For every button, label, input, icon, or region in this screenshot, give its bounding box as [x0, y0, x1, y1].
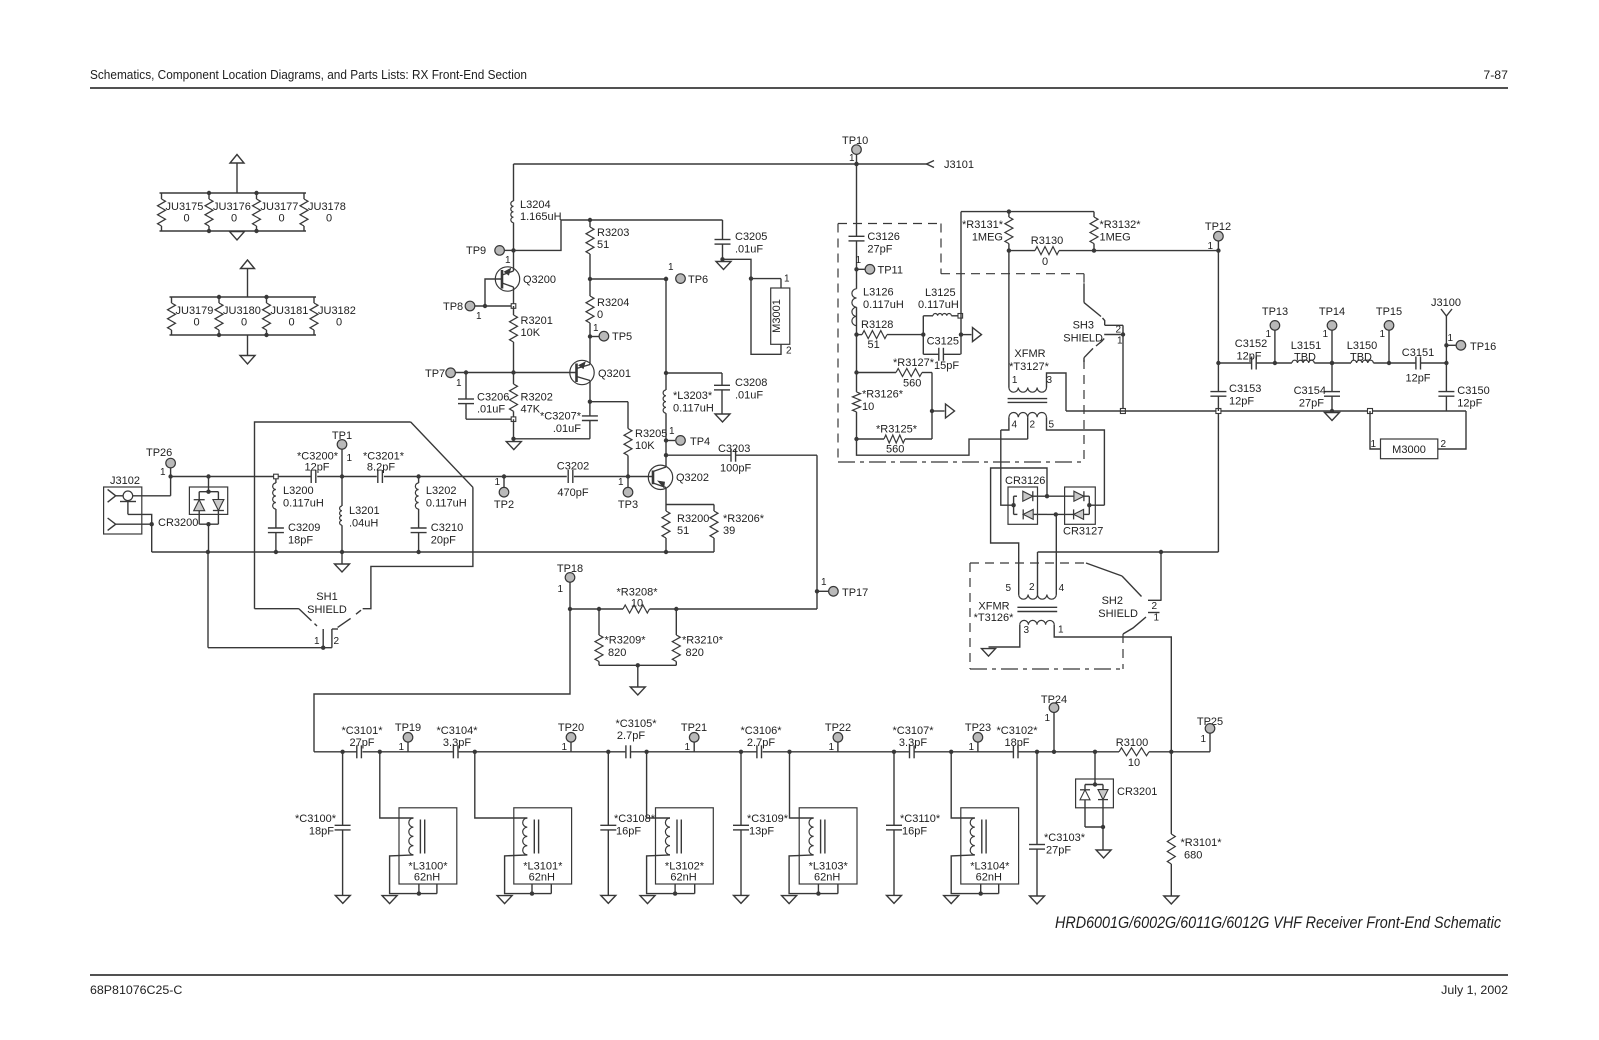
capacitor C3203: [664, 443, 817, 475]
svg-text:820: 820: [608, 647, 626, 659]
svg-text:Q3202: Q3202: [676, 472, 709, 484]
transistor Q3200: [495, 250, 556, 306]
svg-text:*C3100*: *C3100*: [295, 813, 337, 825]
svg-text:TP16: TP16: [1470, 341, 1496, 353]
svg-text:27pF: 27pF: [867, 243, 892, 255]
wire R3200-R3206 bottom: [664, 550, 714, 554]
svg-text:TP5: TP5: [612, 331, 632, 343]
signal arrow mid: [932, 404, 955, 418]
svg-text:CR3201: CR3201: [1117, 786, 1157, 798]
capacitor C3102: [997, 725, 1039, 758]
svg-text:0.117uH: 0.117uH: [918, 299, 959, 311]
svg-text:62nH: 62nH: [814, 872, 840, 884]
inductor L3202: [415, 474, 466, 528]
svg-text:0: 0: [279, 213, 285, 225]
resistor R3200: [662, 505, 709, 553]
svg-text:R3200: R3200: [677, 513, 709, 525]
svg-text:TP6: TP6: [688, 274, 708, 286]
svg-text:Q3201: Q3201: [598, 368, 631, 380]
power arrow (up) for jumper group 2: [241, 260, 255, 297]
svg-text:*C3110*: *C3110*: [900, 813, 941, 825]
svg-text:*C3102*: *C3102*: [997, 725, 1039, 737]
capacitor C3152: [1235, 338, 1267, 370]
svg-text:SHIELD: SHIELD: [1063, 333, 1103, 345]
resistor R3205: [624, 402, 667, 477]
wire T3126 pin1 riser: [1054, 625, 1171, 752]
svg-text:0: 0: [194, 317, 200, 329]
capacitor C3200: [297, 451, 339, 484]
svg-text:1: 1: [494, 477, 500, 488]
svg-text:CR3200: CR3200: [158, 517, 198, 529]
svg-text:18pF: 18pF: [309, 825, 334, 837]
wire CR bottom node to T3126 pin4: [1055, 514, 1057, 594]
transistor Q3202: [648, 441, 709, 505]
svg-text:XFMR: XFMR: [978, 601, 1009, 613]
svg-text:1: 1: [618, 477, 624, 488]
wire R3131 node to T3127 pin1: [1008, 251, 1010, 388]
svg-text:1: 1: [1207, 241, 1213, 252]
test point TP22: [825, 722, 851, 753]
svg-text:.01uF: .01uF: [735, 243, 763, 255]
svg-text:1: 1: [821, 577, 827, 588]
svg-text:1: 1: [593, 323, 599, 334]
inductor L3103: [782, 750, 857, 904]
svg-text:C3152: C3152: [1235, 338, 1267, 350]
resistor JU3175: [158, 193, 204, 231]
inductor L3100: [378, 750, 457, 904]
svg-text:TP14: TP14: [1319, 306, 1345, 318]
svg-text:0.117uH: 0.117uH: [863, 299, 904, 311]
svg-text:*T3126*: *T3126*: [974, 612, 1014, 624]
test point TP24: [1041, 694, 1067, 754]
svg-text:680: 680: [1184, 849, 1202, 861]
svg-text:16pF: 16pF: [616, 825, 641, 837]
svg-text:C3126: C3126: [867, 231, 899, 243]
shield SH1 pins: [314, 629, 340, 648]
page header text: [90, 68, 1508, 82]
wire ground net y552: [1038, 414, 1219, 555]
wire SH3 pin to square: [1120, 325, 1125, 413]
svg-text:JU3177: JU3177: [261, 201, 299, 213]
svg-text:12pF: 12pF: [304, 462, 329, 474]
svg-text:1: 1: [668, 262, 674, 273]
test point TP15: [1376, 306, 1402, 365]
svg-text:TBD: TBD: [1294, 352, 1316, 364]
svg-text:L3126: L3126: [863, 287, 894, 299]
svg-text:560: 560: [886, 444, 904, 456]
svg-text:TP11: TP11: [878, 265, 903, 277]
ground below C3208: [715, 414, 730, 422]
resistor R3100: [1116, 737, 1149, 769]
svg-text:C3202: C3202: [557, 461, 589, 473]
jumper group 1 junctions: [207, 191, 259, 233]
test point TP13: [1262, 306, 1288, 365]
resistor JU3180: [215, 297, 261, 335]
svg-text:*C3104*: *C3104*: [437, 725, 479, 737]
svg-text:1: 1: [1322, 329, 1328, 340]
ground below R3202: [506, 442, 521, 450]
svg-text:C3206: C3206: [477, 391, 509, 403]
wire T3127 secondary leads: [1001, 417, 1105, 505]
test point TP10: [842, 135, 868, 166]
svg-text:C3210: C3210: [431, 522, 463, 534]
svg-text:8.2pF: 8.2pF: [367, 462, 395, 474]
svg-text:M3001: M3001: [771, 299, 783, 333]
svg-text:J3100: J3100: [1431, 297, 1461, 309]
inductor L3203: [663, 277, 714, 441]
svg-text:2.7pF: 2.7pF: [617, 730, 645, 742]
svg-text:3: 3: [1024, 625, 1030, 636]
svg-text:12pF: 12pF: [1457, 397, 1482, 409]
svg-text:68P81076C25-C: 68P81076C25-C: [90, 983, 182, 997]
svg-text:R3202: R3202: [521, 391, 553, 403]
test point TP4: [664, 426, 710, 448]
test point TP5: [588, 323, 632, 343]
wire T3127 pin3: [1047, 373, 1067, 411]
resistor R3101: [1167, 752, 1222, 896]
svg-text:1: 1: [1012, 375, 1018, 386]
wire SH2 pin drop: [1160, 552, 1162, 600]
module M3001: [771, 274, 792, 357]
wire TP18 drop to bottom bus: [314, 609, 570, 752]
svg-text:5: 5: [1049, 420, 1055, 431]
svg-text:TP4: TP4: [690, 436, 710, 448]
svg-text:*R3210*: *R3210*: [682, 635, 724, 647]
ground below CR3201: [1096, 850, 1111, 858]
svg-text:1: 1: [557, 584, 563, 595]
svg-text:TP2: TP2: [494, 499, 514, 511]
wire output chain: [1218, 362, 1446, 364]
wire T3126 pin2: [1037, 552, 1039, 595]
capacitor C3207: [540, 400, 598, 439]
svg-text:13pF: 13pF: [749, 825, 774, 837]
svg-text:R3130: R3130: [1031, 235, 1063, 247]
svg-text:TP3: TP3: [618, 499, 638, 511]
svg-text:1: 1: [669, 426, 675, 437]
wire main RF line: [171, 476, 653, 478]
wire T3126 pin3 to ground: [989, 625, 1020, 647]
svg-text:1.165uH: 1.165uH: [520, 211, 562, 223]
svg-text:*R3209*: *R3209*: [605, 635, 647, 647]
capacitor C3108: [600, 750, 655, 896]
svg-text:560: 560: [903, 378, 921, 390]
wire J3102 center pin to RF line: [133, 477, 171, 496]
resistor R3210: [672, 609, 723, 665]
capacitor C3150: [1438, 363, 1489, 411]
svg-text:CR3127: CR3127: [1063, 526, 1103, 538]
test point TP25: [1197, 716, 1223, 752]
svg-text:C3203: C3203: [718, 443, 750, 455]
resistor R3209: [595, 609, 646, 665]
svg-text:62nH: 62nH: [414, 872, 440, 884]
capacitor C3202: [557, 461, 589, 500]
svg-text:SHIELD: SHIELD: [307, 604, 347, 616]
wire L3126 column lower: [854, 335, 858, 442]
svg-text:1: 1: [1154, 613, 1160, 624]
connector J3101: [927, 159, 974, 171]
svg-text:JU3175: JU3175: [166, 201, 204, 213]
wire bias top rail: [961, 209, 1094, 213]
test point TP8: [443, 301, 514, 322]
svg-text:27pF: 27pF: [349, 737, 374, 749]
svg-text:0.117uH: 0.117uH: [673, 403, 714, 415]
svg-text:51: 51: [677, 525, 689, 537]
svg-text:2: 2: [1116, 325, 1122, 336]
diode CR3200: [158, 474, 228, 554]
svg-text:R3128: R3128: [861, 319, 893, 331]
footer rule: [90, 974, 1508, 976]
svg-text:R3204: R3204: [597, 297, 629, 309]
svg-text:62nH: 62nH: [976, 872, 1002, 884]
capacitor C3209: [268, 522, 321, 554]
svg-text:L3151: L3151: [1291, 340, 1322, 352]
resistor R3128: [854, 319, 923, 351]
wire R3209-R3210 bottom: [599, 663, 676, 687]
wire C3206-R3202 bottom: [466, 417, 516, 422]
junction Q3200 emitter node: [511, 304, 516, 309]
svg-text:18pF: 18pF: [1004, 737, 1029, 749]
wire jumper group 2 bottom bus: [170, 334, 317, 336]
svg-text:SH3: SH3: [1073, 320, 1094, 332]
svg-text:JU3182: JU3182: [318, 305, 356, 317]
svg-text:*L3203*: *L3203*: [673, 390, 713, 402]
svg-text:SH2: SH2: [1102, 595, 1123, 607]
svg-text:3.3pF: 3.3pF: [899, 737, 927, 749]
svg-text:XFMR: XFMR: [1014, 348, 1045, 360]
svg-text:J3101: J3101: [944, 159, 974, 171]
svg-text:1: 1: [1200, 734, 1206, 745]
svg-text:.04uH: .04uH: [349, 518, 378, 530]
svg-text:*R3206*: *R3206*: [723, 513, 765, 525]
svg-text:1: 1: [849, 153, 855, 164]
shield SH2 bracket: [1086, 563, 1162, 634]
resistor R3130: [1007, 235, 1094, 268]
svg-text:1MEG: 1MEG: [1100, 232, 1131, 244]
inductor L3151: [1291, 340, 1322, 364]
ground below C3103: [1030, 896, 1045, 904]
svg-text:M3000: M3000: [1392, 444, 1426, 456]
svg-text:3: 3: [1047, 375, 1053, 386]
wire top rail V+: [514, 163, 928, 165]
wire R3127/R3125 output node: [930, 373, 934, 440]
junction bottom bus / riser: [1169, 750, 1173, 754]
svg-text:62nH: 62nH: [670, 872, 696, 884]
capacitor C3105: [616, 718, 658, 758]
inductor L3102: [640, 750, 713, 904]
svg-text:4: 4: [1012, 420, 1018, 431]
svg-text:TP26: TP26: [146, 447, 172, 459]
svg-text:1: 1: [476, 311, 482, 322]
wire to C3207 ground run: [511, 419, 590, 441]
svg-text:470pF: 470pF: [557, 487, 588, 499]
wire TP12 column: [1216, 251, 1220, 392]
svg-text:SHIELD: SHIELD: [1098, 608, 1138, 620]
svg-text:JU3179: JU3179: [176, 305, 214, 317]
resistor JU3177: [253, 193, 299, 231]
svg-text:TP13: TP13: [1262, 306, 1288, 318]
signal arrow tank: [961, 328, 982, 342]
svg-text:L3200: L3200: [283, 485, 314, 497]
inductor L3104: [944, 750, 1019, 904]
ground below L3201: [335, 552, 350, 572]
test point TP1: [332, 430, 353, 479]
test point TP14: [1319, 306, 1345, 365]
ground below C3108: [601, 895, 616, 903]
wire emitter node to R3205: [590, 401, 628, 403]
svg-text:L3150: L3150: [1347, 340, 1378, 352]
svg-text:.01uF: .01uF: [735, 389, 763, 401]
svg-text:*R3131*: *R3131*: [962, 219, 1004, 231]
svg-text:*R3208*: *R3208*: [617, 587, 659, 599]
svg-text:*C3207*: *C3207*: [540, 411, 582, 423]
capacitor C3153: [1210, 383, 1261, 411]
svg-text:C3151: C3151: [1402, 347, 1434, 359]
svg-text:R3203: R3203: [597, 227, 629, 239]
inductor L3101: [473, 750, 572, 904]
inductor L3126: [852, 269, 904, 334]
test point TP12: [1205, 221, 1231, 253]
inductor L3201: [340, 477, 380, 555]
svg-text:R3201: R3201: [521, 315, 553, 327]
svg-text:3.3pF: 3.3pF: [443, 737, 471, 749]
wire TP9 node jog: [514, 220, 591, 250]
svg-text:51: 51: [597, 239, 609, 251]
svg-text:0: 0: [336, 317, 342, 329]
svg-text:5: 5: [1005, 583, 1011, 594]
svg-text:1: 1: [1370, 439, 1376, 450]
resistor R3125: [857, 424, 933, 456]
svg-text:2.7pF: 2.7pF: [747, 737, 775, 749]
svg-text:TBD: TBD: [1350, 352, 1372, 364]
svg-text:1: 1: [561, 742, 567, 753]
transformer T3127: [1008, 348, 1055, 431]
svg-text:L3204: L3204: [520, 199, 551, 211]
svg-text:7-87: 7-87: [1483, 68, 1508, 82]
svg-text:July 1, 2002: July 1, 2002: [1441, 983, 1508, 997]
resistor JU3178: [300, 193, 346, 231]
svg-text:JU3176: JU3176: [213, 201, 251, 213]
svg-text:1MEG: 1MEG: [972, 232, 1003, 244]
svg-text:0: 0: [241, 317, 247, 329]
svg-text:1: 1: [314, 636, 320, 647]
svg-text:27pF: 27pF: [1299, 397, 1324, 409]
svg-text:1: 1: [784, 274, 790, 285]
test point TP23: [965, 722, 991, 753]
svg-text:JU3178: JU3178: [308, 201, 346, 213]
svg-text:J3102: J3102: [110, 475, 140, 487]
svg-text:2: 2: [1029, 582, 1035, 593]
svg-text:0.117uH: 0.117uH: [283, 498, 324, 510]
wire T3127 pin4 to CR3126: [1001, 430, 1014, 505]
svg-text:0: 0: [184, 213, 190, 225]
svg-text:2: 2: [1030, 420, 1036, 431]
svg-text:C3153: C3153: [1229, 383, 1261, 395]
test point TP3: [618, 474, 638, 511]
footer text: [90, 983, 1508, 997]
svg-text:0.117uH: 0.117uH: [426, 498, 467, 510]
capacitor C3104: [437, 725, 479, 758]
svg-text:39: 39: [723, 525, 735, 537]
svg-text:0: 0: [289, 317, 295, 329]
svg-text:C3154: C3154: [1294, 385, 1326, 397]
svg-text:*C3105*: *C3105*: [616, 718, 658, 730]
svg-text:HRD6001G/6002G/6011G/6012G VHF: HRD6001G/6002G/6011G/6012G VHF Receiver …: [1055, 913, 1502, 932]
test point TP26: [146, 447, 175, 479]
svg-text:1: 1: [347, 453, 353, 464]
svg-text:10K: 10K: [521, 327, 541, 339]
wire Q3200 base loop: [485, 279, 502, 306]
shield SH2 dashed enclosure: [970, 563, 1123, 669]
capacitor C3151: [1402, 347, 1434, 385]
ground arrow (down) for jumper group 1: [230, 232, 245, 241]
svg-text:TP8: TP8: [443, 301, 463, 313]
capacitor C3106: [741, 725, 783, 758]
capacitor C3154: [1294, 361, 1340, 413]
svg-text:1: 1: [828, 742, 834, 753]
svg-text:4: 4: [1059, 583, 1065, 594]
svg-text:51: 51: [868, 339, 880, 351]
ground below C3154: [1325, 413, 1340, 421]
wire R3125 rail to T3127 pin2: [857, 439, 1028, 455]
inductor L3150: [1347, 340, 1378, 364]
resistor R3204: [586, 277, 629, 337]
diode CR3201: [1076, 750, 1158, 850]
svg-text:*R3127*: *R3127*: [893, 357, 935, 369]
svg-text:C3205: C3205: [735, 231, 767, 243]
wire M3001 return loop: [751, 279, 781, 355]
resistor R3206: [666, 505, 765, 553]
svg-text:JU3181: JU3181: [271, 305, 309, 317]
test point TP9: [466, 245, 516, 266]
svg-text:2: 2: [1152, 601, 1158, 612]
svg-text:1: 1: [160, 467, 166, 478]
resistor R3201: [510, 306, 553, 373]
inductor L3204: [511, 164, 562, 250]
resistor R3126: [853, 389, 904, 414]
wire tank left edge: [921, 316, 925, 355]
svg-text:TP9: TP9: [466, 245, 486, 257]
ground below C3100: [335, 895, 350, 903]
svg-text:47K: 47K: [521, 404, 541, 416]
transformer T3126: [974, 582, 1065, 636]
test point TP19: [395, 722, 421, 753]
resistor R3132: [1090, 212, 1141, 251]
svg-text:0: 0: [231, 213, 237, 225]
svg-text:12pF: 12pF: [1236, 351, 1261, 363]
svg-text:SH1: SH1: [316, 591, 337, 603]
svg-text:*R3132*: *R3132*: [1100, 219, 1142, 231]
svg-text:27pF: 27pF: [1046, 844, 1071, 856]
resistor JU3176: [205, 193, 251, 231]
svg-text:TP17: TP17: [842, 587, 868, 599]
svg-text:*R3101*: *R3101*: [1181, 837, 1223, 849]
svg-text:Schematics, Component Location: Schematics, Component Location Diagrams,…: [90, 68, 527, 82]
svg-text:*R3126*: *R3126*: [862, 389, 904, 401]
shield SH3 dashed enclosure: [838, 224, 1084, 463]
ground below C3110: [887, 895, 902, 903]
svg-text:Q3200: Q3200: [523, 274, 556, 286]
capacitor C3210: [411, 522, 464, 554]
svg-text:C3150: C3150: [1457, 385, 1489, 397]
svg-text:62nH: 62nH: [529, 872, 555, 884]
capacitor C3110: [886, 750, 941, 896]
header rule: [90, 87, 1508, 89]
svg-text:1: 1: [1379, 329, 1385, 340]
capacitor C3126: [849, 162, 900, 269]
capacitor C3107: [893, 725, 935, 758]
svg-text:C3125: C3125: [927, 335, 959, 347]
svg-text:L3202: L3202: [426, 485, 457, 497]
